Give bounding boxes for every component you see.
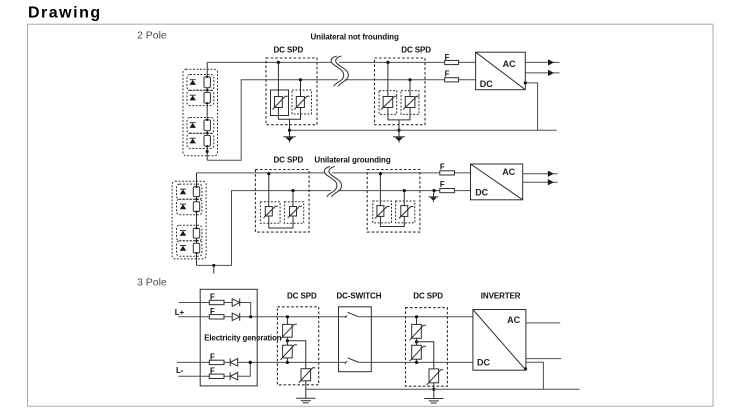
wire inverter chassis to rail [525,83,537,130]
SPD6 outer dashed box [406,308,448,387]
wire SPD4 bottom join [380,216,404,226]
PV1 module M1 [204,77,210,88]
svg-text:L+: L+ [175,308,185,317]
wire grounding drop [432,191,435,197]
SPD5 varistor MOV1 [280,324,297,339]
node SPD6 midpoint [415,340,418,343]
wire SPD6 earth drop [433,383,435,399]
SPD5 varistor MOV2 [280,345,297,360]
wire SPD6 bottom link [416,359,418,362]
AC output wire 2 [525,72,559,74]
node L+ at SPD1 [277,61,280,64]
wire SPD5 earth drop [305,381,307,399]
node string join L+ [249,315,252,318]
svg-text:INVERTER: INVERTER [481,292,521,301]
arrowhead output 1 [548,59,554,65]
node L+ at SPD6 [415,315,418,318]
inverter U3 diagonal [473,310,526,371]
svg-text:F: F [445,53,450,62]
wire SPD1 bottom join [278,108,300,120]
SPD1 outer dashed box [266,58,317,125]
wire string branch 1 [179,303,251,317]
svg-text:AC: AC [507,315,520,325]
fuse F string1 [209,300,224,304]
node L+ at SPD2 [386,61,389,64]
SPD4 varistor MOV3 [375,206,389,219]
SPD3 varistor MOV1 [264,206,278,218]
PV1 cell box 2 [187,90,214,105]
SPD5 outer dashed box [277,307,318,385]
SPD4 outer dashed box [367,170,420,233]
node L- at SPD2 [408,78,411,81]
wire L+ top (squiggle to fuse) [332,172,440,174]
svg-text:F: F [210,352,215,361]
arrowhead output 1 [548,171,554,177]
SPD2 varistor MOV3 [381,96,397,109]
node SPD5 midpoint [286,339,289,342]
wire L+ top (PV1 to squiggle) [207,61,331,63]
break squiggle circuit 2 [324,167,341,197]
PV1 series chain wire [206,62,208,160]
SPD1 inner dashed box [292,90,312,114]
node L- at SPD3 [291,189,294,192]
wire L+ top (fuse to inverter) [459,61,476,63]
AC output wire 2 [526,358,561,360]
svg-text:F: F [445,70,450,79]
PV2 cell box 1 [177,184,203,199]
SPD6 varistor MOV4 [410,324,427,340]
fuse F4 [440,189,455,193]
node L+ at SPD3 [267,172,270,175]
SPD2 varistor MOV4 [403,96,419,109]
switch blade top [345,312,359,318]
svg-text:DC: DC [480,79,493,89]
PV2 series chain wire [196,173,198,266]
fuse F3 [440,171,455,175]
PV array PV2 outer dashed box [172,181,206,259]
svg-text:F: F [210,293,215,302]
PV1 cell box 3 [187,118,214,134]
ground symbol SPD1 [283,137,295,143]
wire L- (fuse to inverter) [459,79,476,81]
SPD3 varistor MOV2 [288,206,302,218]
wire L+ top (squiggle to fuse) [339,61,445,63]
PV2 cell box 3 [177,225,203,240]
diode string3 [230,358,238,366]
SPD3 inner dashed box left [260,202,280,224]
fuse F2 [445,78,459,82]
AC output wire 1 [526,322,560,324]
PV1 module M3 [204,120,210,131]
PV1 bypass diode D4 [190,138,196,143]
node L- at SPD4 [403,189,406,192]
wire string branch 4 [178,362,250,376]
wire L- (fuse to inverter) [454,190,470,192]
wire string branch 2 (L+) [178,316,473,318]
node L+ at SPD5 [286,315,289,318]
svg-text:F: F [440,180,445,189]
SPD2 outer dashed box [375,58,426,125]
wire SPD5 mid link [287,337,305,369]
arrowhead output 2 [548,70,554,76]
earth bonding rail circuit 1 [290,129,557,131]
wire SPD2 right drop [409,80,411,97]
svg-text:F: F [210,366,215,375]
AC output wire 1 [525,61,559,63]
SPD6 varistor MOV5 [410,345,427,361]
arrowhead output 2 [548,179,554,185]
DC switch box S1 [339,307,372,372]
svg-text:F: F [440,163,445,172]
node L- at SPD1 [299,78,302,81]
node PV2 frame tap [212,264,215,267]
node L- grounding tap [433,189,436,192]
wire string branch 3 (L-) [177,361,473,363]
node PV1 chain bottom [206,150,209,153]
PV array PV1 outer dashed box [183,69,218,155]
svg-text:Drawing: Drawing [28,5,102,22]
PV2 module M4 [193,243,199,253]
node SPD2 earth junction [397,129,400,132]
svg-text:DC SPD: DC SPD [274,45,304,54]
PV2 bypass diode D3 [180,231,186,236]
svg-text:DC-SWITCH: DC-SWITCH [337,292,382,301]
wire SPD6 top drop [416,317,418,325]
svg-text:L-: L- [176,366,184,375]
SPD4 varistor MOV4 [399,206,413,219]
wire SPD1 earth drop [289,119,291,137]
wire SPD1 right drop [300,80,302,97]
SPD3 outer dashed box [255,170,309,233]
svg-text:AC: AC [502,167,515,177]
SPD2 inner dashed box right [401,91,419,115]
diode string2 [232,313,240,321]
wire L- (squiggle to fuse) [345,79,445,81]
node inverter chassis tap [524,81,527,84]
wire L- bottom run from PV2 [197,191,332,266]
inverter U2 box [471,164,523,200]
PV2 module M3 [193,228,199,238]
wire SPD3 left drop [268,174,270,207]
fuse F1 [445,60,459,64]
PV2 module M1 [193,187,199,197]
svg-text:AC: AC [503,59,516,69]
SPD5 varistor MOV3 [299,368,316,383]
inverter U2 diagonal [471,164,523,200]
wire SPD4 left drop [379,174,381,206]
wire L- bottom run from PV1 [207,80,338,161]
node L+ at SPD4 [379,172,382,175]
node SPD1 earth junction [288,129,291,132]
SPD3 inner dashed box right [284,202,303,224]
svg-text:Unilateral grounding: Unilateral grounding [314,155,390,164]
svg-text:DC SPD: DC SPD [401,45,431,54]
wire SPD3 right drop [292,191,294,207]
wire SPD3 bottom join [269,216,293,228]
wire inverter chassis to rail [526,362,544,389]
diode string1 [232,299,240,307]
node SPD6 at rail [432,388,435,391]
wire SPD5 bottom link [286,358,288,363]
PV2 bypass diode D1 [180,189,186,194]
wire L+ top (PV2 to squiggle) [197,172,325,174]
SPD4 inner dashed box right [396,201,415,223]
svg-text:DC: DC [475,188,488,198]
wire SPD5 top drop [286,317,288,325]
PV1 cell box 1 [187,75,214,91]
electricity generation box [200,289,257,386]
PV1 bypass diode D1 [190,80,196,85]
inverter U1 box [476,52,526,89]
AC output wire 1 [523,173,558,175]
AC output wire 2 [523,181,558,183]
inverter U3 box [473,310,526,371]
node inverter U3 corner [524,367,527,370]
node L- at SPD6 [415,361,418,364]
fuse F string2 [209,315,224,319]
wire SPD2 bottom join [388,108,410,120]
wire SPD6 mid link [417,338,434,369]
PV1 cell box 4 [187,133,214,148]
fuse F string4 [209,374,224,378]
wire SPD2 earth drop [398,120,400,137]
ground symbol SPD5 (3-bar) [296,398,315,403]
inverter U1 diagonal [476,52,526,89]
svg-text:Unilateral not frounding: Unilateral not frounding [311,33,399,42]
svg-text:Electricity generation: Electricity generation [204,333,281,342]
PV1 bypass diode D2 [190,95,196,100]
svg-text:DC: DC [477,358,490,368]
PV1 bypass diode D3 [190,123,196,128]
svg-text:F: F [210,307,215,316]
svg-text:DC SPD: DC SPD [413,292,443,301]
diode string4 [230,372,238,380]
node PV2 chain joints [195,186,197,254]
SPD1 varistor MOV2 [294,96,309,109]
SPD6 varistor MOV6 [427,369,444,385]
wire SPD2 left drop [387,62,389,96]
ground symbol L- grounding [429,197,439,202]
wire SPD4 right drop [403,191,405,206]
wire SPD1 left drop [277,62,279,96]
SPD1 disconnector solid box [271,90,289,116]
PV2 bypass diode D2 [180,204,186,209]
SPD1 varistor MOV1 [273,96,288,109]
break squiggle circuit 1 [331,56,348,86]
node L- at SPD5 [286,361,289,364]
PV2 module M2 [193,202,199,212]
svg-text:DC SPD: DC SPD [274,155,304,164]
PV2 cell box 4 [177,241,203,257]
PV2 cell box 2 [177,199,203,215]
wire L- (squiggle to fuse) [338,190,440,192]
PV2 bypass diode D4 [180,246,186,251]
PV1 module M2 [204,92,210,103]
svg-text:DC SPD: DC SPD [287,292,317,301]
wire PV2 frame stub [213,265,215,273]
svg-text:2 Pole: 2 Pole [137,30,167,42]
fuse F string3 [209,360,224,364]
switch blade bottom [345,358,359,364]
ground symbol SPD2 [393,137,405,143]
wire L+ top (fuse to inverter) [454,172,470,174]
SPD2 inner dashed box left [379,91,397,115]
node string join L- [249,361,252,364]
SPD4 inner dashed box left [373,201,392,223]
svg-text:3 Pole: 3 Pole [137,276,167,288]
ground symbol SPD6 (3-bar) [424,399,443,404]
node PV1 chain joints [206,76,208,147]
PV1 module M4 [204,135,210,146]
earth bonding rail circuit 3 [306,388,580,390]
